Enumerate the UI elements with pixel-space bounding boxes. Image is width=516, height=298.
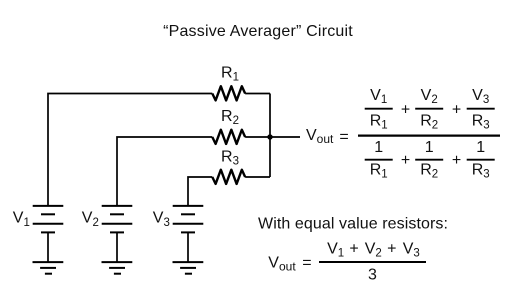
svg-text:+: + — [452, 152, 461, 169]
svg-text:V3: V3 — [403, 241, 420, 260]
svg-text:+: + — [349, 241, 358, 258]
svg-text:R1: R1 — [370, 162, 388, 181]
svg-text:“Passive Averager” Circuit: “Passive Averager” Circuit — [163, 23, 353, 40]
wire R1 left to V1 top — [48, 94, 212, 206]
svg-text:Vout: Vout — [268, 255, 296, 274]
wire R2 right — [245, 136, 270, 138]
node junction dot — [267, 134, 272, 139]
svg-text:With equal value resistors:: With equal value resistors: — [258, 215, 448, 232]
svg-text:=: = — [302, 255, 311, 272]
svg-text:V2: V2 — [365, 241, 382, 260]
svg-text:R2: R2 — [420, 113, 438, 132]
wire R2 left to V2 top — [117, 137, 212, 205]
ground for V1 — [33, 262, 64, 274]
svg-text:V2: V2 — [421, 87, 438, 106]
svg-text:1: 1 — [374, 139, 383, 156]
ground for V2 — [102, 262, 133, 274]
svg-text:R3: R3 — [472, 162, 490, 181]
wire output — [270, 136, 300, 138]
resistor R2 — [212, 130, 245, 144]
svg-text:+: + — [452, 102, 461, 119]
svg-text:R3: R3 — [472, 113, 490, 132]
fraction bar equal-value formula — [319, 261, 426, 263]
wire R3 left to V3 top — [188, 177, 212, 205]
svg-text:+: + — [401, 102, 410, 119]
ground for V3 — [173, 262, 204, 274]
svg-text:R2: R2 — [221, 108, 239, 127]
svg-text:V1: V1 — [327, 241, 344, 260]
svg-text:+: + — [401, 152, 410, 169]
battery V2 — [102, 206, 133, 262]
svg-text:V1: V1 — [13, 209, 30, 229]
battery V1 — [33, 206, 64, 262]
resistor R3 — [212, 170, 245, 184]
svg-text:R1: R1 — [370, 113, 388, 132]
svg-text:R1: R1 — [221, 65, 239, 84]
svg-text:+: + — [387, 241, 396, 258]
svg-text:Vout: Vout — [306, 127, 334, 146]
svg-text:R2: R2 — [420, 162, 438, 181]
wire R1 right — [245, 93, 270, 95]
wire right bus — [269, 94, 271, 178]
svg-text:1: 1 — [476, 139, 485, 156]
svg-text:V2: V2 — [82, 209, 99, 229]
svg-text:V3: V3 — [153, 209, 170, 229]
svg-text:3: 3 — [368, 266, 377, 283]
resistor R1 — [212, 86, 245, 100]
wire R3 right — [245, 176, 270, 178]
svg-text:V1: V1 — [370, 87, 387, 106]
svg-text:=: = — [339, 129, 348, 146]
svg-text:1: 1 — [425, 139, 434, 156]
svg-text:R3: R3 — [221, 149, 239, 168]
svg-text:V3: V3 — [472, 87, 489, 106]
battery V3 — [173, 206, 204, 262]
main fraction bar — [358, 134, 500, 136]
